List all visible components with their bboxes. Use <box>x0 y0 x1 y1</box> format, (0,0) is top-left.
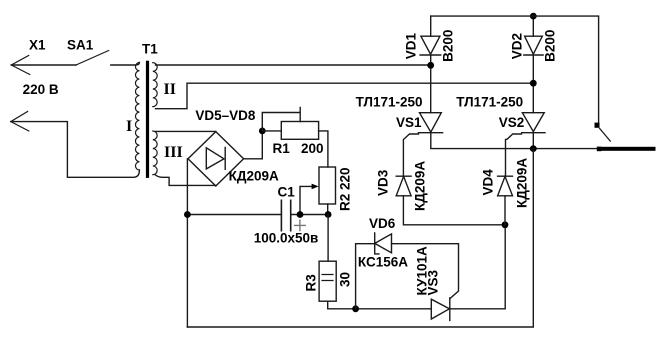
electrode contact square <box>597 147 602 152</box>
svg-text:SA1: SA1 <box>67 38 94 53</box>
svg-text:VS1: VS1 <box>396 115 422 130</box>
svg-text:VD4: VD4 <box>481 169 496 196</box>
node junction VD6 branch <box>352 305 359 312</box>
transformer T1 secondary winding III <box>153 131 157 175</box>
transformer T1 secondary winding II <box>153 63 157 107</box>
svg-text:R1: R1 <box>273 141 291 156</box>
wire winding II bottom lead step up <box>156 83 534 109</box>
svg-text:200: 200 <box>301 141 324 156</box>
svg-text:R2 220: R2 220 <box>338 167 353 211</box>
wire VS2 anode <box>532 83 534 113</box>
wire R1 right to R2 top <box>319 131 328 167</box>
wire VD3 anode down across <box>403 196 505 225</box>
svg-text:КС156А: КС156А <box>358 255 408 270</box>
capacitor C1 <box>281 200 290 230</box>
wire SA1 to T1 primary top <box>111 63 140 66</box>
electrode bar <box>601 147 655 151</box>
node junction mid rail left <box>184 211 191 218</box>
svg-text:II: II <box>164 81 176 98</box>
thyristor VS1 <box>418 113 442 133</box>
diode VD2 <box>524 36 543 55</box>
svg-text:КД209А: КД209А <box>515 158 530 208</box>
svg-text:ТЛ171-250: ТЛ171-250 <box>456 95 523 110</box>
transformer T1 primary winding I <box>135 63 139 171</box>
wire winding III bottom lead to bridge <box>155 175 216 186</box>
wire node A up over to R1 top <box>262 108 300 131</box>
svg-text:КД209А: КД209А <box>229 168 279 183</box>
wire VD2 cathode stub <box>532 55 534 83</box>
wire bridge plus to node A <box>244 131 263 159</box>
switch SA1 blade <box>76 51 109 66</box>
wire VD4 anode down <box>504 196 506 225</box>
wire R2 bottom <box>327 204 329 215</box>
svg-text:VD2: VD2 <box>510 33 525 59</box>
bridge rectifier VD5-VD8 diamond <box>188 132 244 186</box>
wire X1 bottom to T1 primary bottom <box>11 122 140 178</box>
wire VD1 cathode stub <box>430 55 432 65</box>
svg-text:100.0x50в: 100.0x50в <box>254 231 319 246</box>
wire negative rail mid <box>187 214 281 216</box>
wire VS2 cathode <box>532 133 534 149</box>
svg-text:VD3: VD3 <box>376 169 391 196</box>
wire VS1 cathode to output rail <box>431 133 597 149</box>
node junction VS2 cathode on rail <box>530 145 537 152</box>
wire C1 plus to node B <box>291 214 328 216</box>
svg-text:220 В: 220 В <box>23 82 59 97</box>
diode VD3 <box>396 176 411 196</box>
bridge inner diode <box>206 148 225 170</box>
svg-text:X1: X1 <box>29 38 46 53</box>
wire node to R3 top <box>327 215 329 262</box>
wire VD6 to VS3 gate <box>392 244 459 299</box>
thyristor VS2 <box>522 113 545 133</box>
node junction VD2 cathode rail <box>530 80 537 87</box>
svg-text:III: III <box>164 144 183 161</box>
resistor R1 <box>281 122 318 140</box>
wire bridge minus down left rail <box>186 159 188 327</box>
wire VS3 cathode to VD3 VD4 node <box>450 225 505 309</box>
resistor R3 power marks <box>322 275 333 281</box>
resistor R3 <box>319 261 336 301</box>
switch blade open <box>600 128 611 141</box>
wire VD6 left branch <box>356 244 375 309</box>
svg-text:КД209А: КД209А <box>413 161 428 211</box>
diode VD1 <box>420 36 441 55</box>
connector X1 arrow bottom <box>11 112 29 132</box>
potentiometer R2 wiper arrow <box>300 186 314 214</box>
wire winding II top rail to VD1 cathode node <box>156 64 431 66</box>
wire top rail <box>431 16 599 123</box>
node junction VD3 VD4 anodes <box>502 221 509 228</box>
svg-text:VD5–VD8: VD5–VD8 <box>195 108 256 123</box>
node B junction C1 plus <box>297 211 304 218</box>
node junction VD2 top rail <box>530 13 537 20</box>
wire node A to R1 left <box>262 130 281 132</box>
capacitor C1 plus sign <box>295 220 306 230</box>
diode VD4 <box>498 176 513 196</box>
svg-text:ТЛ171-250: ТЛ171-250 <box>356 95 423 110</box>
transformer T1 core <box>146 61 149 178</box>
wire VD2 anode top <box>532 16 534 36</box>
svg-text:VS3: VS3 <box>426 269 441 295</box>
svg-text:T1: T1 <box>142 42 158 57</box>
wire X1 to SA1 <box>11 64 76 66</box>
thyristor VS3 <box>431 298 450 320</box>
connector X1 arrow top <box>11 56 29 75</box>
svg-text:C1: C1 <box>278 184 296 199</box>
wire R3 bottom to VS3 rail <box>328 301 432 309</box>
wire VD3 cathode up to VS1 gate <box>403 134 418 176</box>
svg-text:30: 30 <box>338 272 353 287</box>
svg-text:VS2: VS2 <box>499 115 525 130</box>
svg-text:VD1: VD1 <box>404 32 419 59</box>
zener diode VD6 <box>375 233 392 254</box>
svg-text:R3: R3 <box>304 274 319 292</box>
resistor R2 <box>319 167 336 204</box>
node junction VD1 cathode rail <box>427 62 434 69</box>
wire VS2 cathode down to bottom rail <box>187 149 533 327</box>
svg-text:I: I <box>126 118 132 135</box>
node A junction <box>259 127 266 134</box>
wire winding III top lead to bridge <box>156 130 216 132</box>
wire VD1 anode top <box>430 16 432 36</box>
wire VD4 cathode up to VS2 gate <box>506 134 522 176</box>
wire VS1 anode <box>430 65 432 112</box>
svg-text:VD6: VD6 <box>369 216 396 231</box>
svg-text:B200: B200 <box>543 30 558 62</box>
node junction R2 bottom <box>325 211 332 218</box>
switch contact square top <box>595 123 600 128</box>
svg-text:B200: B200 <box>441 30 456 62</box>
